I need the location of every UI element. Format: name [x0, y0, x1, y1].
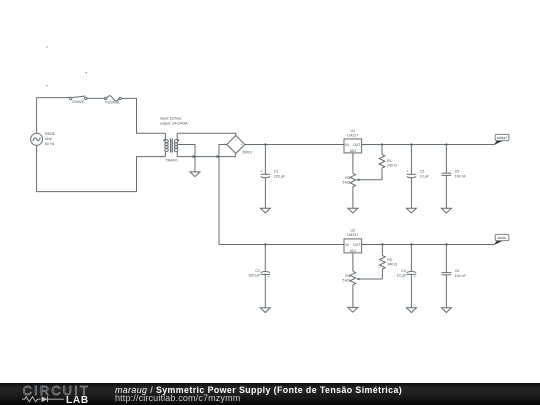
- svg-text:R2: R2: [387, 258, 392, 262]
- wire: switch to fuse: [87, 97, 104, 99]
- svg-text:C4: C4: [401, 269, 406, 273]
- wire: secondary bottom lead to bridge bottom corner: [177, 154, 235, 157]
- capacitor C4 10uF: [397, 245, 417, 308]
- junction: C4 on bottom rail: [410, 243, 412, 245]
- CircuitLab logo: [22, 383, 90, 405]
- junction: bridge negative wire at secondary bottom wire: [217, 155, 221, 158]
- wire: bottom rail from corner to U2: [219, 244, 344, 246]
- svg-text:R1: R1: [387, 159, 392, 163]
- svg-text:5 kΩ: 5 kΩ: [343, 181, 351, 185]
- voltage source V1 REDE: [31, 132, 56, 146]
- svg-text:REDE: REDE: [45, 132, 56, 136]
- svg-text:TRAFO: TRAFO: [165, 159, 177, 163]
- capacitor C3 10uF: [406, 145, 429, 209]
- bridge rectifier D1 2W10: [227, 136, 252, 155]
- svg-text:~: ~: [235, 149, 237, 153]
- ground: C2: [260, 308, 270, 313]
- capacitor C2 220uF: [249, 245, 271, 308]
- svg-text:220 µF: 220 µF: [274, 174, 286, 178]
- wire: center tap down to ground: [194, 157, 196, 172]
- annotation: transformer ratings: [160, 117, 188, 126]
- svg-text:240 Ω: 240 Ω: [387, 263, 397, 267]
- junction: C6 on bottom rail: [445, 243, 447, 245]
- svg-text:+: +: [240, 143, 242, 147]
- svg-text:CHAVE: CHAVE: [72, 100, 85, 104]
- wire: bottom rail from U2 OUT to output flag: [362, 244, 494, 246]
- ground: C1: [260, 208, 270, 213]
- svg-text:C3: C3: [420, 170, 425, 174]
- svg-text:ADJ: ADJ: [350, 249, 357, 253]
- svg-text:C5: C5: [455, 170, 460, 174]
- potentiometer R4 5k: [343, 271, 383, 285]
- wire: U1 ADJ down to pot R3: [352, 153, 354, 173]
- ground: R3: [348, 208, 358, 213]
- svg-text:LAB: LAB: [66, 395, 89, 405]
- ground: C5: [441, 208, 451, 213]
- svg-text:2W10: 2W10: [242, 151, 251, 155]
- capacitor C5 100nF: [442, 145, 467, 209]
- svg-text:input: 110Vac: input: 110Vac: [160, 117, 182, 121]
- wire: R3 bottom to ground: [352, 187, 354, 209]
- svg-text:FUSIVEL: FUSIVEL: [105, 100, 120, 104]
- ground: R4: [348, 307, 358, 312]
- footer bar: [0, 383, 540, 405]
- switch SW1 CHAVE: [70, 96, 88, 104]
- regulator U2 LM337: [344, 228, 362, 253]
- capacitor C6 100nF: [442, 245, 467, 308]
- wire: secondary center tap: [177, 145, 195, 157]
- svg-text:http://circuitlab.com/c7mzymm: http://circuitlab.com/c7mzymm: [115, 393, 240, 403]
- svg-text:240 Ω: 240 Ω: [387, 164, 397, 168]
- fuse F1 FUSIVEL: [104, 96, 121, 105]
- junction: R1 on top rail: [381, 143, 383, 145]
- junction: R2 on bottom rail: [381, 243, 383, 245]
- resistor R1 240: [379, 145, 397, 180]
- transformer T1 TRAFO: [163, 133, 179, 162]
- junction: center tap at secondary bottom wire: [193, 155, 197, 158]
- wire: source top to top-left corner: [36, 98, 38, 134]
- junction: C2 on bottom rail: [264, 243, 266, 245]
- svg-text:ADJ: ADJ: [350, 149, 357, 153]
- svg-text:100 nF: 100 nF: [455, 174, 467, 178]
- wire: top rail from U1 OUT to output flag: [362, 144, 494, 146]
- wire: U2 ADJ down to pot R4: [352, 253, 354, 271]
- svg-text:5 kΩ: 5 kΩ: [343, 279, 351, 283]
- svg-text:R3: R3: [345, 176, 350, 180]
- svg-text:IN: IN: [345, 143, 349, 147]
- junction: C5 on top rail: [445, 143, 447, 145]
- svg-text:U2: U2: [350, 228, 355, 232]
- svg-text:IN: IN: [345, 243, 349, 247]
- ground: C6: [441, 308, 451, 313]
- resistor R2 240: [380, 245, 398, 280]
- svg-text:sine: sine: [45, 137, 52, 141]
- svg-text:100 nF: 100 nF: [455, 274, 467, 278]
- wire: fuse to top-right corner and down to transformer primary top: [121, 98, 165, 133]
- wire: transformer primary bottom to left and down to bottom rail of loop: [37, 145, 166, 191]
- wire: secondary top to bridge top corner: [177, 133, 236, 135]
- svg-text:saida-: saida-: [497, 236, 507, 240]
- ground: C4: [406, 308, 416, 313]
- regulator U1 LM317: [344, 129, 362, 153]
- wire: R4 bottom to ground: [352, 285, 354, 308]
- svg-text:-: -: [230, 143, 231, 147]
- svg-text:~: ~: [235, 138, 237, 142]
- footer credit text: [115, 385, 402, 403]
- svg-text:OUT: OUT: [353, 243, 360, 247]
- capacitor C1 220uF: [260, 145, 286, 209]
- wire: top rail from bridge to U1: [245, 144, 344, 146]
- svg-text:output: 24+24/3A: output: 24+24/3A: [160, 121, 188, 125]
- ground: C3: [406, 208, 416, 213]
- svg-text:220 µF: 220 µF: [249, 274, 261, 278]
- svg-text:60 Hz: 60 Hz: [45, 142, 55, 146]
- svg-text:LM317: LM317: [347, 134, 358, 138]
- svg-text:C6: C6: [455, 269, 460, 273]
- svg-text:C1: C1: [274, 170, 279, 174]
- junction: C1 on top rail: [264, 143, 266, 145]
- svg-text:OUT: OUT: [353, 143, 360, 147]
- svg-text:LM337: LM337: [347, 233, 358, 237]
- svg-text:10 µF: 10 µF: [420, 174, 430, 178]
- svg-text:10 µF: 10 µF: [397, 274, 407, 278]
- ground: center tap: [190, 172, 200, 177]
- wire: top rail to switch: [37, 97, 70, 99]
- svg-text:U1: U1: [350, 129, 355, 133]
- net flag saida+: [493, 134, 509, 145]
- junction: C3 on top rail: [410, 143, 412, 145]
- svg-text:saida+: saida+: [497, 136, 507, 140]
- svg-text:C2: C2: [255, 269, 260, 273]
- potentiometer R3 5k: [343, 173, 382, 187]
- net flag saida-: [493, 234, 509, 245]
- svg-text:R4: R4: [345, 274, 350, 278]
- wire: bridge left corner to negative vertical: [219, 145, 227, 245]
